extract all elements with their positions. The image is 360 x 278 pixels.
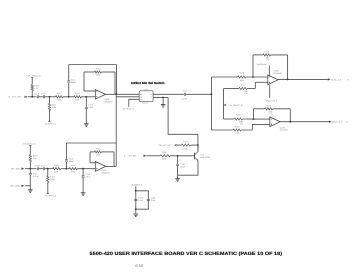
junction node A2 xyxy=(49,96,51,98)
connector MIC_GND arrow xyxy=(22,185,24,187)
junction gnd drop xyxy=(162,97,164,99)
svg-text:680pF: 680pF xyxy=(71,81,77,84)
svg-text:1%: 1% xyxy=(266,59,269,62)
wire feedback1 top right xyxy=(271,54,288,56)
junction decoupling top xyxy=(135,190,137,192)
ground below C115 xyxy=(28,190,33,193)
resistor R125 100k feedback xyxy=(94,151,101,153)
op-amp U10A xyxy=(95,90,105,100)
wire node B2 down xyxy=(47,169,49,176)
wire MIC_GND xyxy=(25,185,30,187)
wire inner feedback right xyxy=(114,72,116,94)
wire node A4 down to C113 xyxy=(85,97,87,107)
resistor R120 100k xyxy=(233,129,241,131)
junction U10D minus node xyxy=(253,118,255,120)
resistor R121 2.2k xyxy=(29,155,31,162)
svg-text:R124: R124 xyxy=(71,164,77,167)
net flag SW_MIC_DET arrow xyxy=(175,144,177,146)
junction node B3 xyxy=(66,168,68,170)
wire switch pin V+ branch xyxy=(153,97,168,99)
svg-text:GND_TAS_5: GND_TAS_5 xyxy=(266,100,278,103)
wire U10D output xyxy=(280,121,329,123)
resistor R111 100k xyxy=(48,103,50,110)
capacitor C119 xyxy=(82,176,85,177)
wire VA_MIC1_5 to R121 xyxy=(29,145,31,154)
wire C116 to C117 xyxy=(39,168,44,170)
junction output feedback2 xyxy=(289,121,291,123)
svg-text:VA_REF2_5: VA_REF2_5 xyxy=(45,122,57,125)
resistor R114 100k feedback xyxy=(94,71,101,73)
power tick VA_REF2_5 xyxy=(48,121,50,123)
capacitor C113 xyxy=(85,107,88,108)
svg-text:IN1: IN1 xyxy=(140,93,143,96)
svg-text:100k: 100k xyxy=(235,131,239,134)
wire inner feedback top right xyxy=(101,71,115,73)
wire outer feedback top xyxy=(69,64,117,66)
wire VA_MIC2_5 to R110 xyxy=(31,77,33,84)
capacitor C118 xyxy=(65,160,68,161)
wire node B4 down to C119 xyxy=(82,169,84,176)
wire R127 to collector run xyxy=(191,144,198,146)
wire R123 to R124 xyxy=(61,168,69,170)
svg-text:0.47uF: 0.47uF xyxy=(33,175,40,178)
svg-text:100k: 100k xyxy=(52,106,56,109)
analog switch U11 xyxy=(139,91,153,102)
svg-text:MMBT3904: MMBT3904 xyxy=(200,156,210,159)
svg-text:VA_MIC2_5: VA_MIC2_5 xyxy=(27,74,41,77)
connector INT_MIC arrow xyxy=(144,155,146,157)
wire C112 to feedback top xyxy=(68,65,70,81)
wire R112 to R113 xyxy=(63,96,74,98)
wire ext input to C110 xyxy=(28,96,37,98)
svg-text:1%: 1% xyxy=(269,113,272,116)
net flag VA_REF2_5 arrow xyxy=(224,104,226,106)
capacitor C110 xyxy=(37,95,38,98)
wire inner feedback top left xyxy=(84,71,94,73)
svg-text:C114: C114 xyxy=(183,89,187,92)
svg-text:6-59: 6-59 xyxy=(135,264,143,268)
capacitor C122 xyxy=(147,199,150,200)
svg-text:VA_REF1_5: VA_REF1_5 xyxy=(45,194,57,197)
svg-text:Gnd/Sense: Gnd/Sense xyxy=(257,63,268,66)
rail VA_REF2_5 vertical xyxy=(223,89,225,120)
resistor R123 100k xyxy=(53,168,61,170)
svg-text:680pF: 680pF xyxy=(69,160,75,163)
wire signal bus vertical xyxy=(210,77,212,130)
power tick VA_REF1_5 xyxy=(47,193,49,195)
wire U10C output xyxy=(106,165,117,167)
resistor R116 100k feedback xyxy=(263,54,271,56)
svg-text:OPA2340: OPA2340 xyxy=(280,129,288,132)
switch pin3 wire to VA_REG2_5 xyxy=(129,99,139,106)
wire C111 to R112 xyxy=(45,96,56,98)
svg-text:AUD1_A_N: AUD1_A_N xyxy=(332,121,343,124)
capacitor C117 xyxy=(43,167,44,170)
wire feedback2 left xyxy=(253,109,255,119)
wire R121 to node xyxy=(29,162,31,169)
ground decoupling xyxy=(134,214,139,217)
wire feedback1 left xyxy=(252,55,254,77)
wire rail to R118 xyxy=(224,118,235,120)
svg-text:100k: 100k xyxy=(240,79,244,82)
wire C115 to ground xyxy=(29,175,31,190)
wire R118 to U10D minus xyxy=(242,118,269,120)
junction ext output node xyxy=(115,93,117,95)
junction node A3 xyxy=(68,96,70,98)
wire C110 to C111 xyxy=(39,96,44,98)
svg-text:R126: R126 xyxy=(162,151,168,154)
junction output feedback1 xyxy=(287,79,289,81)
junction collector node xyxy=(197,144,199,146)
svg-text:R127: R127 xyxy=(183,141,189,144)
svg-text:2.2k: 2.2k xyxy=(34,87,38,90)
wire inner feedback top right B xyxy=(101,151,114,153)
svg-text:C117: C117 xyxy=(41,165,45,168)
svg-text:R114: R114 xyxy=(96,68,102,71)
capacitor C114 xyxy=(184,93,185,96)
wire node A3 up to C112 xyxy=(68,83,70,97)
capacitor C116 xyxy=(37,167,38,170)
wire R113 to opamp plus xyxy=(81,96,95,98)
svg-text:100k: 100k xyxy=(57,98,61,101)
wire bus to R115 xyxy=(211,76,237,78)
wire R120 to U10D plus xyxy=(241,124,270,130)
svg-text:9: 9 xyxy=(346,121,348,124)
svg-text:INT_MIC: INT_MIC xyxy=(11,168,21,171)
wire flag to R127 xyxy=(177,144,182,146)
svg-text:C116: C116 xyxy=(35,165,39,168)
junction node A4 xyxy=(85,96,87,98)
wire feedback2 right xyxy=(289,109,291,122)
wire R111 to VA_REF2_5 xyxy=(49,110,51,121)
svg-text:4: 4 xyxy=(124,155,126,158)
wire R115 to U10B minus xyxy=(246,76,268,78)
svg-text:11: 11 xyxy=(8,96,11,99)
wire node A2 down xyxy=(49,97,51,104)
svg-text:INT_MIC: INT_MIC xyxy=(129,155,138,158)
wire U10A output to switch xyxy=(106,93,140,95)
wire R117 to plus xyxy=(247,88,255,90)
wire C118 to feedback top xyxy=(65,143,67,160)
wire outer feedback top B xyxy=(66,142,116,144)
svg-text:0.1uF: 0.1uF xyxy=(138,199,144,202)
svg-text:5500-420 USER INTERFACE BOARD: 5500-420 USER INTERFACE BOARD VER C SCHE… xyxy=(90,251,283,256)
svg-text:VA_REF2_5: VA_REF2_5 xyxy=(131,183,143,186)
wire R122 to VA_REF1_5 xyxy=(47,182,49,193)
svg-text:1%: 1% xyxy=(240,123,243,126)
wire int input xyxy=(25,168,36,170)
capacitor C120 xyxy=(176,164,179,165)
svg-text:ADG719: ADG719 xyxy=(142,101,148,104)
wire to ground xyxy=(162,98,164,105)
resistor R117 100k xyxy=(239,87,247,89)
ground below C113 xyxy=(84,124,89,127)
wire R110 to node xyxy=(31,91,33,97)
wire decoupling loop xyxy=(136,191,149,209)
wire C113 to ground xyxy=(85,109,87,124)
wire INT_MIC to R126 xyxy=(147,155,161,157)
svg-text:Int/Ext Mic Sel Switch: Int/Ext Mic Sel Switch xyxy=(131,81,165,85)
junction node B2 xyxy=(47,168,49,170)
junction bus tee xyxy=(211,93,213,95)
svg-text:V+: V+ xyxy=(151,96,153,99)
wire node B1 down xyxy=(29,169,31,174)
connector J3 arrow xyxy=(22,168,24,170)
wire feedback2 top left xyxy=(254,108,265,110)
wire base node down xyxy=(177,156,179,164)
wire C117 to R123 xyxy=(45,168,53,170)
svg-text:R119: R119 xyxy=(266,104,272,107)
junction node B1 xyxy=(29,168,31,170)
resistor R118 100k xyxy=(234,118,242,120)
wire plus drop xyxy=(254,82,256,88)
junction node B4 xyxy=(82,168,84,170)
power tick VA_MIC2_5 xyxy=(31,76,33,78)
svg-text:2.2uF: 2.2uF xyxy=(151,199,157,202)
capacitor C121 xyxy=(134,199,137,200)
resistor R110 2.2k xyxy=(31,85,33,91)
svg-text:R118: R118 xyxy=(236,113,242,116)
op-amp U10C xyxy=(95,162,105,172)
connector AUD1_A_P xyxy=(328,78,331,80)
wire inner feedback left xyxy=(83,72,85,91)
svg-text:OPA2340: OPA2340 xyxy=(274,72,282,75)
svg-text:100k: 100k xyxy=(54,170,58,173)
svg-text:VA_MIC1_5: VA_MIC1_5 xyxy=(23,142,36,145)
svg-text:100k: 100k xyxy=(162,158,166,161)
svg-text:R112: R112 xyxy=(57,92,63,95)
wire C114 to bus xyxy=(186,93,212,95)
svg-text:VA_REG2_5: VA_REG2_5 xyxy=(123,107,135,110)
junction decoupling bottom xyxy=(135,208,137,210)
resistor R127 100k xyxy=(182,144,191,146)
wire bus to R120 xyxy=(211,129,233,131)
svg-text:MIC_GND: MIC_GND xyxy=(10,185,21,188)
resistor R124 100k xyxy=(69,168,77,170)
wire Gnd/Sense stub xyxy=(268,65,270,75)
wire inner feedback left B xyxy=(89,152,91,163)
wire to opamp minus xyxy=(84,90,95,92)
ground at switch xyxy=(161,105,166,108)
power tick VA_MIC1_5 xyxy=(29,144,31,146)
svg-text:OPA2340: OPA2340 xyxy=(102,172,110,175)
svg-text:2.2uF: 2.2uF xyxy=(86,176,92,179)
svg-text:R120: R120 xyxy=(235,126,241,129)
capacitor C115 xyxy=(29,174,32,175)
svg-text:CM: CM xyxy=(150,93,153,96)
wire Q10 emitter return xyxy=(178,161,198,179)
svg-text:R117: R117 xyxy=(241,84,247,87)
svg-text:9: 9 xyxy=(347,78,349,81)
wire decoupling rail xyxy=(135,186,137,213)
svg-text:100k: 100k xyxy=(75,98,79,101)
op-amp U10B gnd pin xyxy=(269,85,271,98)
resistor R112 100k xyxy=(56,96,64,98)
wire to switch pin2 xyxy=(116,96,139,98)
wire rail to R117 xyxy=(224,88,239,90)
capacitor C111 xyxy=(43,95,44,98)
wire feedback1 right xyxy=(287,55,289,80)
resistor R113 100k xyxy=(74,96,82,98)
connector AUD1_A_N xyxy=(329,121,332,123)
svg-text:C111: C111 xyxy=(41,93,45,96)
svg-text:0.1uF: 0.1uF xyxy=(180,166,186,169)
wire Q10 collector xyxy=(197,145,199,152)
op-amp U10D xyxy=(270,117,280,127)
svg-text:R123: R123 xyxy=(54,164,60,167)
wire U10B plus stub xyxy=(255,81,267,83)
transistor Q10 MMBT3904 xyxy=(194,153,196,160)
wire switch control run xyxy=(168,98,198,152)
wire switch output to C114 xyxy=(153,93,184,95)
svg-text:100k: 100k xyxy=(96,154,100,157)
wire feedback2 top right xyxy=(273,108,291,110)
svg-text:0.47uF: 0.47uF xyxy=(181,98,188,101)
ground below C119 xyxy=(81,193,86,196)
wire node B3 up to C118 xyxy=(65,162,67,169)
svg-text:VA_REF2_5: VA_REF2_5 xyxy=(229,104,244,107)
svg-text:2.2k: 2.2k xyxy=(33,157,37,160)
wire U10B output xyxy=(278,78,328,80)
svg-text:EXT_MIC: EXT_MIC xyxy=(12,96,22,99)
op-amp U10B xyxy=(268,75,278,85)
wire R126 to Q10 base xyxy=(170,155,194,157)
svg-text:100k: 100k xyxy=(96,74,100,77)
svg-text:1%: 1% xyxy=(244,92,247,95)
svg-text:C110: C110 xyxy=(35,93,39,96)
resistor R126 100k xyxy=(160,155,170,157)
connector J2 arrow xyxy=(25,96,27,98)
svg-text:100k: 100k xyxy=(50,178,54,181)
resistor R115 100k xyxy=(238,76,246,78)
resistor R122 100k xyxy=(47,176,49,183)
svg-text:OPA2340: OPA2340 xyxy=(104,101,112,104)
svg-text:100k: 100k xyxy=(71,170,75,173)
wire outer feedback right xyxy=(116,65,118,95)
junction base node xyxy=(177,155,179,157)
svg-text:R125: R125 xyxy=(96,148,102,151)
svg-text:R113: R113 xyxy=(75,92,81,95)
resistor R119 100k feedback xyxy=(265,108,273,110)
svg-text:2.2uF: 2.2uF xyxy=(88,106,94,109)
svg-text:100k: 100k xyxy=(183,147,187,150)
ground at Q10 emitter xyxy=(175,179,180,182)
wire inner feedback right B xyxy=(113,152,115,167)
wire inner feedback top left B xyxy=(90,151,94,153)
wire C120 to emitter return xyxy=(177,165,179,175)
wire to opamp minus B xyxy=(90,162,95,164)
svg-text:U11: U11 xyxy=(144,88,147,91)
wire R124 to opamp plus xyxy=(78,168,96,170)
junction node A1 xyxy=(31,96,33,98)
capacitor C112 xyxy=(67,81,70,82)
wire C119 to ground xyxy=(82,177,84,192)
junction U10B minus node xyxy=(252,76,254,78)
svg-text:AUD1_A_P: AUD1_A_P xyxy=(331,78,342,81)
svg-text:SW_MIC_DET: SW_MIC_DET xyxy=(158,144,172,147)
svg-text:R115: R115 xyxy=(240,71,246,74)
wire feedback1 top left xyxy=(253,54,263,56)
svg-text:R116: R116 xyxy=(264,50,270,53)
wire int preamp output rising xyxy=(115,94,117,166)
